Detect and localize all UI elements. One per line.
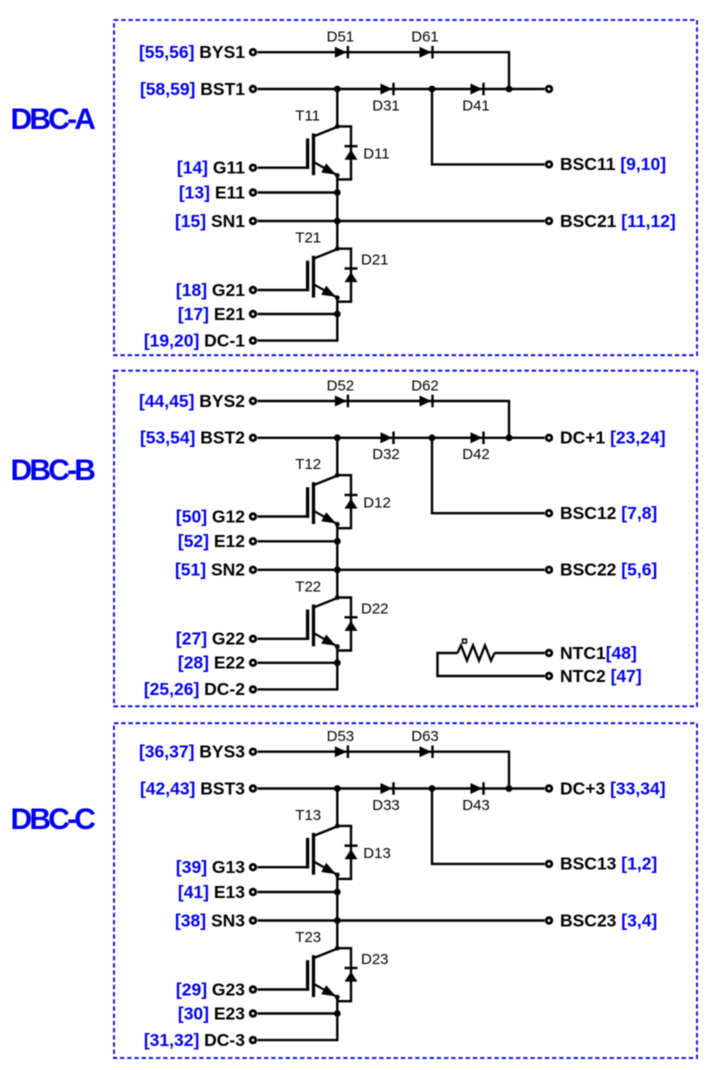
wire G2 lead bbox=[258, 638, 309, 640]
wire SN row bbox=[258, 569, 545, 571]
diode D52 bbox=[335, 396, 347, 407]
diode D33 bbox=[381, 783, 393, 794]
svg-text:[27] G22: [27] G22 bbox=[176, 629, 245, 649]
svg-text:BSC11 [9,10]: BSC11 [9,10] bbox=[560, 154, 666, 174]
DBC-B module boundary bbox=[114, 371, 697, 707]
wire lower vertical bbox=[336, 647, 338, 690]
svg-text:[36,37] BYS3: [36,37] BYS3 bbox=[139, 742, 245, 762]
svg-text:[14] G11: [14] G11 bbox=[177, 158, 245, 178]
terminal NTC1 bbox=[546, 650, 552, 656]
svg-text:D43: D43 bbox=[462, 797, 490, 814]
wire main vertical upper bbox=[336, 438, 338, 475]
node E2/main bbox=[334, 1010, 341, 1017]
resistor NTC thermistor bbox=[458, 645, 495, 660]
wire DC row bbox=[258, 688, 339, 690]
svg-text:[13] E11: [13] E11 bbox=[179, 182, 245, 202]
svg-text:D31: D31 bbox=[372, 97, 400, 114]
terminal DC+1 bbox=[546, 435, 552, 441]
svg-text:T12: T12 bbox=[295, 456, 321, 473]
wire G2 lead bbox=[258, 289, 309, 291]
node emitter of T11 bbox=[335, 173, 340, 178]
wire E1 lead bbox=[258, 191, 338, 193]
svg-text:DBC-A: DBC-A bbox=[11, 103, 96, 136]
wire BYS row bbox=[258, 751, 511, 753]
svg-text:[25,26] DC-2: [25,26] DC-2 bbox=[144, 679, 245, 699]
node E1/main bbox=[334, 189, 341, 196]
svg-text:[42,43] BST3: [42,43] BST3 bbox=[140, 778, 245, 798]
node BST/BYS drop bbox=[506, 434, 513, 441]
svg-text:D52: D52 bbox=[327, 377, 355, 394]
svg-text:[30] E23: [30] E23 bbox=[178, 1003, 245, 1023]
wire E2 lead bbox=[258, 313, 338, 315]
svg-text:D61: D61 bbox=[411, 29, 439, 46]
svg-text:[55,56] BYS1: [55,56] BYS1 bbox=[139, 42, 245, 62]
wire NTC loop bbox=[438, 653, 545, 676]
wire DC row bbox=[258, 1039, 339, 1041]
node emitter of T21 bbox=[335, 295, 340, 300]
svg-text:BSC22 [5,6]: BSC22 [5,6] bbox=[560, 560, 657, 580]
node emitter of T13 bbox=[335, 873, 340, 878]
wire mid vertical bbox=[336, 175, 338, 248]
terminal DC+3 bbox=[546, 786, 552, 792]
wire bbox=[337, 126, 351, 179]
svg-text:[15] SN1: [15] SN1 bbox=[175, 211, 245, 231]
svg-text:D21: D21 bbox=[361, 252, 389, 269]
svg-text:BSC23 [3,4]: BSC23 [3,4] bbox=[560, 910, 657, 930]
DBC-A module boundary bbox=[114, 20, 697, 355]
svg-text:[52] E12: [52] E12 bbox=[178, 531, 245, 551]
svg-text:D41: D41 bbox=[462, 97, 490, 114]
node BST/main bbox=[334, 434, 341, 441]
node BST/main bbox=[334, 785, 341, 792]
node BST/BSC branch bbox=[429, 86, 436, 93]
wire main vertical upper bbox=[336, 89, 338, 126]
svg-text:D62: D62 bbox=[411, 377, 439, 394]
svg-text:BSC13 [1,2]: BSC13 [1,2] bbox=[560, 854, 657, 874]
svg-text:[38] SN3: [38] SN3 bbox=[175, 910, 245, 930]
wire G1 lead bbox=[258, 166, 309, 168]
node E2/main bbox=[334, 659, 341, 666]
node E1/main bbox=[334, 538, 341, 545]
svg-text:D11: D11 bbox=[363, 146, 389, 163]
wire lower vertical bbox=[336, 298, 338, 341]
wire BYS row bbox=[258, 51, 511, 53]
svg-text:DC+1 [23,24]: DC+1 [23,24] bbox=[560, 428, 666, 448]
node collector of T22 bbox=[335, 595, 340, 600]
diode D61 bbox=[420, 47, 432, 58]
wire mid vertical bbox=[336, 875, 338, 948]
wire G2 lead bbox=[258, 988, 309, 990]
diode D12 bbox=[345, 494, 358, 496]
DBC-C module boundary bbox=[114, 723, 697, 1058]
svg-text:D23: D23 bbox=[361, 951, 389, 968]
terminal BSC13 bbox=[546, 861, 552, 867]
wire G1 lead bbox=[258, 515, 309, 517]
diode D53 bbox=[335, 746, 347, 757]
wire SN row bbox=[258, 919, 545, 921]
diode D31 bbox=[381, 84, 393, 95]
wire mid vertical bbox=[336, 524, 338, 597]
diode D22 bbox=[345, 616, 358, 618]
wire bbox=[337, 826, 351, 879]
svg-text:D53: D53 bbox=[327, 728, 355, 745]
node E1/main bbox=[334, 889, 341, 896]
svg-text:D33: D33 bbox=[372, 797, 400, 814]
svg-text:T22: T22 bbox=[295, 579, 321, 596]
diode D51 bbox=[335, 47, 347, 58]
svg-text:[19,20] DC-1: [19,20] DC-1 bbox=[144, 330, 245, 350]
node collector of T23 bbox=[335, 946, 340, 951]
svg-text:[41] E13: [41] E13 bbox=[178, 882, 245, 902]
node BST/main bbox=[334, 86, 341, 93]
wire bbox=[337, 475, 351, 528]
svg-text:[53,54] BST2: [53,54] BST2 bbox=[140, 428, 245, 448]
terminal BSC11 bbox=[546, 162, 552, 168]
node collector of T11 bbox=[335, 124, 340, 129]
wire BYS-to-BST drop bbox=[508, 401, 510, 438]
node SN/main bbox=[334, 566, 341, 573]
terminal BSC21 bbox=[546, 218, 552, 224]
node BST/BYS drop bbox=[506, 86, 513, 93]
svg-text:[17] E21: [17] E21 bbox=[178, 304, 245, 324]
wire BYS-to-BST drop bbox=[508, 52, 510, 89]
node collector of T21 bbox=[335, 246, 340, 251]
svg-text:[18] G21: [18] G21 bbox=[176, 280, 245, 300]
terminal NTC2 bbox=[546, 673, 552, 679]
terminal BSC22 bbox=[546, 567, 552, 573]
diode D42 bbox=[471, 432, 483, 443]
svg-text:[29] G23: [29] G23 bbox=[176, 979, 245, 999]
wire BSC1 branch bbox=[432, 89, 545, 164]
svg-text:D22: D22 bbox=[361, 601, 389, 618]
svg-text:[50] G12: [50] G12 bbox=[176, 506, 245, 526]
svg-text:T13: T13 bbox=[295, 807, 321, 824]
svg-text:D42: D42 bbox=[462, 446, 490, 463]
svg-text:[31,32] DC-3: [31,32] DC-3 bbox=[144, 1030, 245, 1050]
diode D32 bbox=[381, 432, 393, 443]
wire bbox=[337, 249, 351, 302]
wire NTC1 lead bbox=[495, 652, 545, 654]
node collector of T12 bbox=[335, 473, 340, 478]
wire BSC1 branch bbox=[432, 438, 545, 513]
node SN/main bbox=[334, 917, 341, 924]
wire DC row bbox=[258, 339, 339, 341]
svg-text:D12: D12 bbox=[363, 495, 391, 512]
wire bbox=[337, 598, 351, 651]
diode D23 bbox=[345, 967, 358, 969]
wire E1 lead bbox=[258, 891, 338, 893]
svg-text:T23: T23 bbox=[295, 929, 321, 946]
svg-text:BSC12 [7,8]: BSC12 [7,8] bbox=[560, 503, 657, 523]
terminal DC link (unlabeled) bbox=[546, 86, 552, 92]
wire main vertical upper bbox=[336, 789, 338, 826]
node SN/main bbox=[334, 218, 341, 225]
svg-text:D13: D13 bbox=[363, 845, 391, 862]
svg-text:[39] G13: [39] G13 bbox=[176, 857, 245, 877]
svg-text:D32: D32 bbox=[372, 446, 400, 463]
wire E1 lead bbox=[258, 540, 338, 542]
node BST/BSC branch bbox=[429, 785, 436, 792]
wire E2 lead bbox=[258, 1012, 338, 1014]
svg-text:D51: D51 bbox=[327, 29, 355, 46]
wire bbox=[337, 948, 351, 1001]
wire G1 lead bbox=[258, 866, 309, 868]
diode D43 bbox=[471, 783, 483, 794]
wire BYS-to-BST drop bbox=[508, 752, 510, 789]
diode D41 bbox=[471, 84, 483, 95]
terminal BSC23 bbox=[546, 918, 552, 924]
node E2/main bbox=[334, 311, 341, 318]
svg-text:[58,59] BST1: [58,59] BST1 bbox=[140, 79, 245, 99]
svg-text:D63: D63 bbox=[411, 728, 439, 745]
node emitter of T12 bbox=[335, 522, 340, 527]
terminal BSC12 bbox=[546, 510, 552, 516]
svg-text:NTC2 [47]: NTC2 [47] bbox=[560, 666, 642, 686]
node collector of T13 bbox=[335, 824, 340, 829]
svg-text:T11: T11 bbox=[295, 107, 320, 124]
wire BST row bbox=[258, 88, 545, 90]
wire BST row bbox=[258, 787, 545, 789]
diode D62 bbox=[420, 396, 432, 407]
svg-text:DBC-B: DBC-B bbox=[11, 454, 96, 487]
node emitter of T22 bbox=[335, 644, 340, 649]
wire lower vertical bbox=[336, 997, 338, 1040]
diode D21 bbox=[345, 267, 358, 269]
svg-text:DC+3 [33,34]: DC+3 [33,34] bbox=[560, 778, 666, 798]
node BST/BSC branch bbox=[429, 434, 436, 441]
svg-text:T21: T21 bbox=[295, 230, 321, 247]
wire SN row bbox=[258, 220, 545, 222]
node BST/BYS drop bbox=[506, 785, 513, 792]
svg-text:NTC1[48]: NTC1[48] bbox=[560, 643, 637, 663]
diode D13 bbox=[345, 845, 358, 847]
wire BST row bbox=[258, 437, 545, 439]
diode D11 bbox=[345, 145, 358, 147]
wire E2 lead bbox=[258, 662, 338, 664]
svg-text:DBC-C: DBC-C bbox=[11, 803, 96, 836]
wire BYS row bbox=[258, 400, 511, 402]
svg-text:[44,45] BYS2: [44,45] BYS2 bbox=[139, 391, 245, 411]
wire BSC1 branch bbox=[432, 789, 545, 864]
svg-text:[51] SN2: [51] SN2 bbox=[175, 560, 245, 580]
svg-text:BSC21 [11,12]: BSC21 [11,12] bbox=[560, 211, 676, 231]
svg-text:[28] E22: [28] E22 bbox=[178, 653, 245, 673]
node emitter of T23 bbox=[335, 995, 340, 1000]
diode D63 bbox=[420, 746, 432, 757]
